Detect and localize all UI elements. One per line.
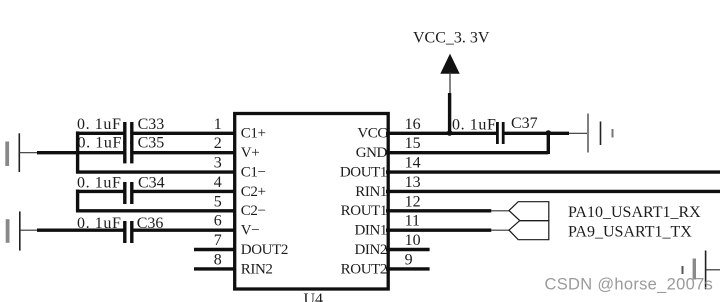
capacitor C33 plates — [125, 122, 132, 144]
svg-text:12: 12 — [405, 193, 421, 210]
wire pin8 stub — [194, 267, 236, 270]
svg-text:C33: C33 — [138, 116, 165, 133]
svg-text:PA9_USART1_TX: PA9_USART1_TX — [568, 223, 692, 240]
wire pin9 stub — [386, 267, 430, 270]
ground G2 left lower — [8, 211, 38, 250]
wire pin11 to port thin — [491, 229, 509, 231]
junction dot GND return — [546, 130, 552, 136]
svg-text:0. 1uF: 0. 1uF — [452, 117, 497, 134]
power arrow VCC_3.3V — [440, 54, 459, 74]
svg-text:C37: C37 — [511, 115, 538, 132]
junction dot VCC stem — [447, 130, 453, 136]
svg-text:7: 7 — [214, 232, 222, 249]
svg-text:15: 15 — [405, 135, 421, 152]
svg-text:5: 5 — [214, 193, 222, 210]
svg-text:0. 1uF: 0. 1uF — [77, 116, 122, 133]
svg-text:VCC_3. 3V: VCC_3. 3V — [413, 30, 490, 47]
wire pin16 VCC to C37 — [386, 132, 496, 135]
wire C37 right plate to node — [503, 132, 569, 135]
svg-text:RIN1: RIN1 — [355, 184, 387, 200]
svg-text:ROUT2: ROUT2 — [341, 261, 387, 277]
ground G3 right of C37 — [588, 114, 613, 153]
wire GND return vertical — [547, 131, 550, 154]
wire pin13 RIN1 — [386, 190, 720, 193]
wire GND to C35 left plate — [37, 151, 124, 154]
wire pin15 GND — [386, 151, 548, 154]
svg-text:V−: V− — [241, 223, 259, 239]
port symbol PA9_USART1_TX — [509, 221, 549, 240]
IC U1 box U4 — [235, 114, 389, 290]
capacitor C37 plates — [497, 122, 503, 144]
svg-text:C1−: C1− — [241, 165, 266, 181]
svg-text:14: 14 — [405, 155, 421, 172]
wire loop vertical C2+ to C2- — [76, 190, 79, 213]
wire C33 right plate to pin1 — [133, 132, 237, 135]
svg-text:PA10_USART1_RX: PA10_USART1_RX — [568, 204, 701, 221]
port symbol PA10_USART1_RX — [509, 202, 549, 221]
wire pin12 ROUT1 thick — [386, 209, 491, 212]
svg-text:0. 1uF: 0. 1uF — [77, 175, 122, 192]
wire node to ground thin — [569, 132, 588, 134]
wire pin11 DIN1 thick — [386, 228, 491, 231]
wire pin14 DOUT1 — [386, 170, 720, 173]
svg-text:3: 3 — [214, 155, 222, 172]
svg-text:10: 10 — [405, 232, 421, 249]
svg-text:ROUT1: ROUT1 — [341, 203, 387, 219]
svg-text:DIN2: DIN2 — [354, 242, 387, 258]
capacitor C34 plates — [125, 182, 132, 204]
capacitor C36 plates — [125, 221, 132, 243]
svg-text:8: 8 — [214, 251, 222, 268]
wire C35 right plate to pin2 — [133, 151, 237, 154]
svg-text:GND: GND — [356, 145, 388, 161]
wire VCC stem thin — [449, 72, 451, 94]
svg-text:C2−: C2− — [241, 203, 266, 219]
svg-text:DOUT1: DOUT1 — [340, 165, 387, 181]
wire pin7 stub — [194, 248, 236, 251]
svg-text:16: 16 — [405, 116, 421, 133]
wire pin5 row C2- — [76, 209, 236, 212]
svg-text:6: 6 — [214, 213, 222, 230]
svg-text:1: 1 — [214, 116, 222, 133]
svg-text:C1+: C1+ — [241, 126, 266, 142]
wire C34 right plate to pin4 — [133, 190, 237, 193]
svg-text:VCC: VCC — [357, 126, 387, 142]
svg-text:2: 2 — [214, 135, 222, 152]
wire GND to C36 left plate — [37, 228, 124, 231]
svg-text:13: 13 — [405, 174, 421, 191]
wire pin10 stub — [386, 248, 430, 251]
svg-text:C35: C35 — [138, 134, 165, 151]
ground G4 bottom right — [683, 251, 720, 290]
wire VCC stem thick — [448, 93, 451, 134]
svg-text:V+: V+ — [241, 145, 259, 161]
svg-text:RIN2: RIN2 — [241, 261, 273, 277]
wire pin3 row C1- — [76, 170, 236, 173]
wire C34 left plate to loop corner — [76, 190, 124, 193]
wire loop vertical C1+ to C1- — [76, 131, 79, 173]
ground G1 left upper — [7, 133, 37, 172]
wire C33 left plate to loop corner — [76, 132, 124, 135]
svg-text:C2+: C2+ — [241, 184, 266, 200]
svg-text:CSDN @horse_2007s: CSDN @horse_2007s — [545, 276, 714, 294]
wire C36 right plate to pin6 — [133, 228, 237, 231]
svg-text:U4: U4 — [304, 291, 324, 302]
svg-text:C34: C34 — [138, 175, 165, 192]
wire pin12 to port thin — [491, 210, 509, 212]
svg-text:4: 4 — [214, 174, 222, 191]
svg-text:11: 11 — [405, 213, 420, 230]
capacitor C35 plates — [125, 141, 132, 163]
svg-text:0. 1uF: 0. 1uF — [78, 134, 123, 151]
svg-text:9: 9 — [405, 251, 413, 268]
svg-text:DIN1: DIN1 — [354, 223, 387, 239]
svg-text:DOUT2: DOUT2 — [241, 242, 288, 258]
